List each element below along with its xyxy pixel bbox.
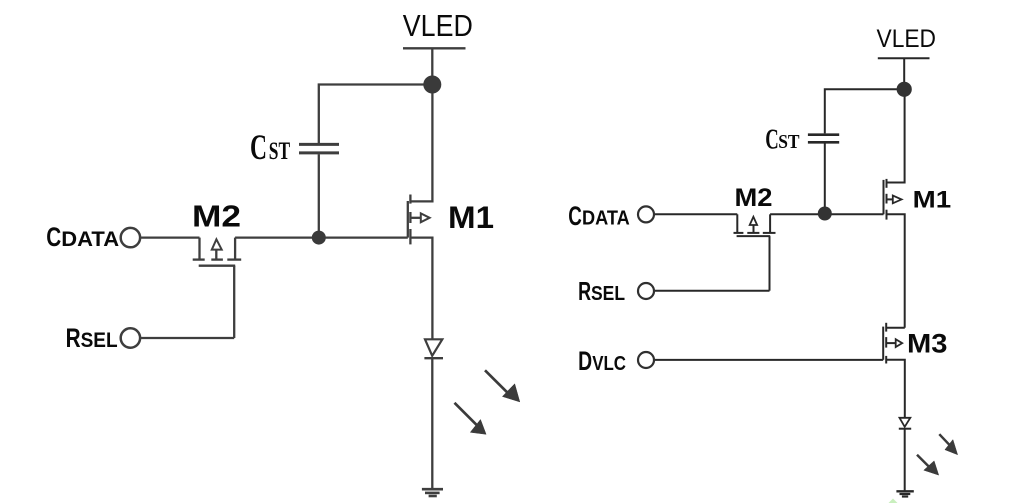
svg-text:C: C [46,222,61,252]
svg-text:M2: M2 [735,184,773,212]
svg-text:SEL: SEL [81,329,118,352]
svg-text:VLED: VLED [403,8,473,43]
svg-text:R: R [66,323,81,353]
svg-text:M3: M3 [907,328,948,358]
svg-text:M2: M2 [192,198,241,233]
svg-text:DATA: DATA [582,208,630,230]
svg-text:ST: ST [778,131,800,153]
svg-text:SEL: SEL [591,283,625,305]
svg-text:M1: M1 [448,199,494,235]
svg-text:D: D [578,346,592,376]
svg-text:DATA: DATA [61,228,119,251]
svg-text:R: R [578,276,591,306]
svg-text:C: C [250,127,267,167]
svg-text:VLED: VLED [877,25,937,53]
svg-text:C: C [568,201,582,231]
svg-text:M1: M1 [913,187,952,214]
svg-text:VLC: VLC [592,353,626,375]
svg-text:ST: ST [269,138,291,165]
svg-text:C: C [765,123,779,155]
